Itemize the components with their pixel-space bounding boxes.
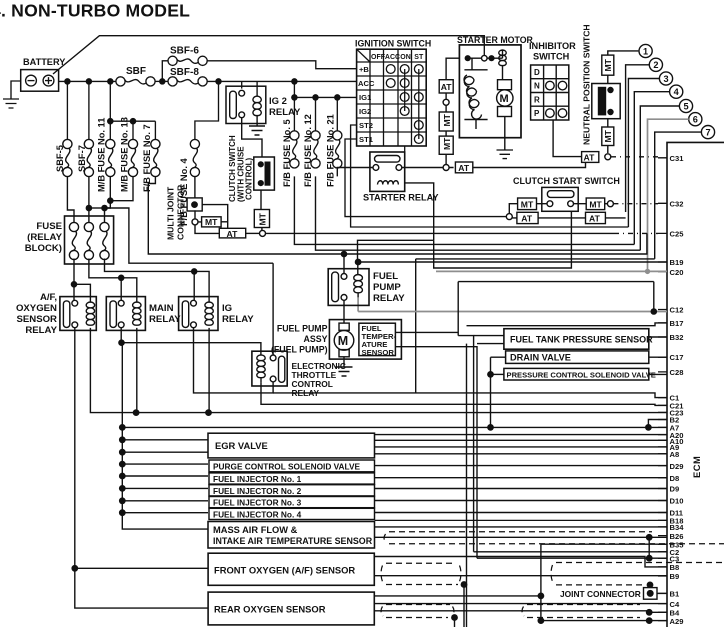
svg-text:OXYGEN: OXYGEN [16, 303, 57, 314]
injector 2 box [209, 485, 375, 496]
svg-text:C20: C20 [670, 268, 684, 277]
label A/F OXYGEN SENSOR RELAY [16, 292, 58, 336]
wire C2 row [474, 551, 667, 553]
svg-text:D10: D10 [670, 497, 684, 506]
connector MT (top) [602, 55, 614, 75]
svg-text:B8: B8 [670, 563, 680, 572]
svg-text:FRONT OXYGEN (A/F) SENSOR: FRONT OXYGEN (A/F) SENSOR [214, 564, 355, 575]
svg-text:MT: MT [442, 137, 452, 150]
svg-text:IG1: IG1 [359, 93, 372, 102]
svg-text:SBF: SBF [126, 66, 146, 77]
wire ETC top contact up to feed row [272, 263, 274, 355]
fuse block box [65, 216, 114, 264]
wire clutch switch out via MT [260, 190, 262, 209]
wire AT out to inhibitor AT [473, 162, 586, 167]
svg-text:C25: C25 [670, 229, 685, 238]
node 7 [701, 126, 714, 139]
svg-text:(RELAY: (RELAY [27, 232, 62, 243]
wire A29 row [541, 620, 667, 622]
svg-text:D9: D9 [670, 485, 680, 494]
wire D29 row [375, 465, 668, 467]
svg-text:OFF: OFF [371, 54, 386, 61]
svg-text:M/B FUSE No. 13: M/B FUSE No. 13 [120, 117, 130, 192]
svg-text:FUEL: FUEL [373, 271, 398, 282]
svg-text:M: M [500, 93, 509, 105]
wire pcsv left [491, 373, 504, 375]
relay MAIN box [106, 297, 145, 331]
wire vertical C1 feed [415, 259, 417, 393]
wire row 258.9 to circle 7 [416, 258, 655, 260]
svg-text:N: N [534, 82, 540, 91]
wire C17 stub [649, 356, 667, 358]
wire B1 row [650, 585, 667, 594]
wire IG2 relay contact feed [241, 81, 243, 88]
connector AT right [586, 212, 606, 223]
svg-text:3: 3 [663, 74, 668, 84]
svg-text:MULTI JOINT: MULTI JOINT [166, 186, 176, 240]
wires fuses into block [67, 176, 110, 222]
svg-text:MAIN: MAIN [149, 303, 174, 314]
wire D10 row [375, 500, 668, 502]
valve drain box [506, 351, 649, 364]
svg-text:AT: AT [458, 163, 470, 173]
wire battery to ground [11, 81, 21, 99]
wire M/B13 to M/B11 node [110, 176, 133, 200]
wire branch up to SBF-6 [162, 61, 168, 82]
wire SBF-5 top [66, 81, 68, 139]
motor M starter [498, 80, 512, 90]
svg-text:1: 1 [643, 46, 648, 56]
wire AT right to circle2 drop [605, 217, 625, 219]
connector MT (clutch switch) [254, 210, 269, 228]
node bus junctions [65, 79, 70, 84]
wire C28 stub [649, 373, 667, 375]
wire column top to starter box [446, 58, 459, 79]
wire D9 row [375, 488, 668, 490]
connector MT (multi joint) [202, 217, 222, 227]
relay ETC box [252, 351, 287, 386]
spring starter [464, 75, 481, 119]
wire B35 row [541, 544, 667, 620]
wire ST1 exit [345, 139, 507, 217]
label FUSE (RELAY BLOCK) [25, 221, 63, 254]
valve pressure control solenoid box [504, 368, 649, 380]
connector MT right [586, 198, 605, 210]
svg-text:F/B FUSE No. 5: F/B FUSE No. 5 [282, 119, 292, 187]
fuse SBF-5 [63, 139, 72, 176]
svg-text:4: 4 [674, 87, 680, 97]
svg-text:MT: MT [589, 199, 602, 209]
svg-text:F/B FUSE No. 21: F/B FUSE No. 21 [326, 114, 336, 187]
valve purge control box [209, 460, 375, 472]
fuse F/B No.7 [151, 139, 160, 176]
wire A7 row [122, 426, 667, 428]
relay fuel pump box [328, 269, 369, 306]
fuse SBF-8 [168, 77, 207, 86]
fuel pump assy box [329, 320, 401, 360]
wire main bus from battery [59, 80, 116, 82]
svg-text:B34: B34 [670, 523, 685, 532]
svg-text:SENSOR: SENSOR [16, 314, 57, 325]
wire F/B12 to circle 5 [316, 176, 641, 250]
node 1 [639, 44, 652, 57]
wire drain valve left [491, 357, 506, 427]
svg-text:AT: AT [584, 152, 596, 162]
inhibitor switch grid [531, 65, 569, 120]
svg-text:CONNECTOR: CONNECTOR [176, 184, 186, 240]
connector AT (starter) [455, 162, 472, 173]
sensor mass air flow box [208, 522, 375, 549]
svg-text:RELAY: RELAY [25, 325, 57, 336]
svg-text:ST1: ST1 [359, 135, 374, 144]
wire B19 row [358, 261, 667, 263]
ignition switch grid [357, 49, 427, 146]
svg-text:SBF-6: SBF-6 [170, 46, 199, 57]
svg-text:B32: B32 [670, 333, 684, 342]
svg-text:CONTROL): CONTROL) [245, 157, 254, 200]
wire circle1 to MT [608, 51, 639, 55]
svg-text:ACC: ACC [358, 79, 375, 88]
node 6 (gray) [648, 113, 702, 272]
svg-text:RELAY: RELAY [292, 388, 320, 398]
fuse block fuse 3 [100, 222, 109, 259]
svg-text:FUEL INJECTOR No. 1: FUEL INJECTOR No. 1 [213, 474, 302, 484]
svg-text:D: D [534, 68, 540, 77]
wire A/F relay down to oxygen sensors [75, 328, 208, 608]
wire B17 row [467, 323, 668, 326]
wire table ST column [418, 69, 420, 139]
svg-text:AT: AT [227, 229, 239, 239]
shield dashed (front oxygen left) [381, 563, 461, 584]
clutch switch (with cruise control) [254, 157, 275, 190]
wire B26 row [375, 536, 668, 538]
svg-text:C12: C12 [670, 306, 684, 315]
node solenoid top [465, 56, 470, 61]
svg-text:MT: MT [205, 217, 218, 227]
wire box to AT route [202, 205, 228, 229]
svg-text:SWITCH: SWITCH [533, 52, 570, 62]
wire B8 row [374, 557, 667, 567]
wire C4 row [374, 603, 667, 605]
svg-text:M: M [338, 334, 348, 348]
svg-text:BLOCK): BLOCK) [25, 243, 62, 254]
wire B4 row [374, 611, 667, 613]
svg-text:IGNITION SWITCH: IGNITION SWITCH [355, 39, 431, 49]
svg-text:5: 5 [683, 101, 688, 111]
wire F/B4 to box [194, 176, 196, 198]
svg-text:ST2: ST2 [359, 121, 373, 130]
wire IG coil down [208, 328, 210, 413]
svg-text:AT: AT [521, 213, 533, 223]
svg-text:F/B FUSE No. 12: F/B FUSE No. 12 [303, 114, 313, 187]
svg-text:C31: C31 [670, 154, 685, 163]
label ELECTRONIC THROTTLE CONTROL RELAY [292, 361, 346, 398]
wire IG1 row [294, 96, 356, 98]
svg-text:(FUEL PUMP): (FUEL PUMP) [271, 345, 328, 355]
injector 1 box [209, 473, 375, 484]
svg-text:C4: C4 [670, 600, 680, 609]
fuse block fuse 2 [84, 222, 93, 259]
wire D11 row [375, 512, 668, 514]
node 4 [670, 85, 683, 98]
wire B34 row [375, 526, 668, 528]
svg-text:ACC: ACC [385, 54, 400, 61]
svg-text:AT: AT [441, 82, 453, 92]
svg-text:C28: C28 [670, 368, 684, 377]
shield dashed (rear oxygen right) [522, 605, 640, 618]
wire starter relay coil down [405, 183, 434, 240]
wire fuse2 to MAIN relay contact and coil [89, 259, 137, 303]
svg-text:MT: MT [521, 199, 534, 209]
ECM body line [667, 142, 724, 627]
svg-text:ECM: ECM [691, 456, 702, 478]
wire fuse3 to IG relay contact and coil [105, 259, 210, 303]
connector MT left [518, 198, 537, 210]
wire clutch start switch to row 268 [434, 211, 572, 268]
wire fuse1 to A/F relay contact and coil [74, 259, 90, 303]
svg-text:2: 2 [653, 60, 658, 70]
connector multi joint box [187, 198, 202, 211]
relay A/F box [60, 297, 96, 331]
wire C3 row [477, 557, 667, 559]
wire C25 row [266, 232, 615, 234]
svg-text:BATTERY: BATTERY [23, 57, 65, 67]
svg-text:SENSOR: SENSOR [362, 348, 395, 357]
fuse block fuse 1 [69, 222, 78, 259]
wire IG relay to ETC bottom contact [194, 328, 274, 393]
valve EGR box [208, 433, 375, 458]
wire left bus [121, 328, 208, 529]
wire B35 link from rear oxygen [374, 595, 541, 597]
svg-text:INTAKE AIR TEMPERATURE SENSOR: INTAKE AIR TEMPERATURE SENSOR [213, 536, 373, 546]
ground (starter motor) [497, 150, 514, 159]
wire bus stubs to purge/injectors [122, 464, 208, 513]
wire F/B5 to circle 4 [294, 176, 634, 244]
svg-text:C17: C17 [670, 353, 684, 362]
svg-text:FUEL INJECTOR No. 2: FUEL INJECTOR No. 2 [213, 486, 302, 496]
connector AT (neutral) [582, 152, 599, 163]
ground (IG2 relay) [249, 126, 265, 135]
plunger starter [464, 58, 487, 129]
svg-text:+B: +B [359, 65, 369, 74]
svg-text:IG2: IG2 [359, 107, 371, 116]
svg-text:STARTER RELAY: STARTER RELAY [363, 193, 439, 203]
wire F/B12 feed [315, 97, 317, 130]
wire C1 row [273, 393, 667, 398]
svg-text:SBF-8: SBF-8 [170, 67, 199, 78]
wire F/B21 feed [336, 97, 338, 130]
wire clutch start input [507, 216, 512, 218]
injector 3 box [209, 497, 375, 508]
svg-text:RELAY: RELAY [149, 314, 181, 325]
relay starter box [370, 152, 405, 191]
svg-text:NEUTRAL POSITION SWITCH: NEUTRAL POSITION SWITCH [582, 24, 592, 145]
connector circle multi joint [192, 219, 198, 225]
svg-text:MT: MT [603, 129, 613, 142]
connector AT (multi joint) [219, 228, 245, 238]
svg-text:4. NON-TURBO MODEL: 4. NON-TURBO MODEL [0, 1, 190, 21]
wire row 240.3 (starter relay coil to fuel pump coil) [358, 240, 434, 274]
switch neutral position [592, 84, 620, 119]
fuse F/B No.21 [333, 131, 342, 168]
wire dash to C32 [613, 203, 658, 205]
wire dash to C31 [611, 156, 658, 158]
svg-text:RELAY: RELAY [269, 107, 301, 118]
starter motor box [459, 45, 521, 138]
sensor fuel temperature box [359, 323, 396, 355]
fuse F/B No.5 [290, 131, 299, 168]
fuse SBF-6 [168, 56, 207, 65]
wire B32 stub [649, 336, 667, 338]
battery B1 [21, 70, 59, 92]
svg-text:C32: C32 [670, 199, 684, 208]
svg-text:RELAY: RELAY [222, 314, 254, 325]
svg-text:FUEL PUMP: FUEL PUMP [277, 324, 328, 334]
wire table ON column [404, 69, 406, 111]
wire fuel temp row to C12 [651, 282, 656, 315]
svg-text:B1: B1 [670, 590, 680, 599]
relay IG2 box [226, 86, 266, 123]
wire starter relay contact to AT [402, 167, 454, 169]
wire B26-C3 link [648, 537, 650, 558]
svg-text:6: 6 [693, 115, 698, 125]
svg-text:R: R [534, 95, 540, 104]
wire SBF-8 to ignition switch ACC [207, 80, 356, 82]
svg-text:DRAIN VALVE: DRAIN VALVE [510, 353, 571, 363]
svg-text:MASS AIR FLOW &: MASS AIR FLOW & [213, 525, 298, 535]
svg-text:D8: D8 [670, 474, 680, 483]
svg-text:INHIBITOR: INHIBITOR [529, 41, 576, 51]
wire EGR outputs [375, 435, 668, 454]
relay IG box [179, 297, 218, 331]
svg-text:AT: AT [589, 213, 601, 223]
node 2 [649, 58, 662, 71]
svg-text:MT: MT [442, 113, 452, 126]
svg-text:P: P [534, 109, 540, 118]
svg-text:STARTER MOTOR: STARTER MOTOR [457, 35, 534, 45]
wire MAIN coil down [136, 328, 138, 413]
fuse M/B No.13 [128, 139, 137, 176]
svg-text:RELAY: RELAY [373, 293, 405, 304]
fuse M/B No.11 [106, 139, 115, 176]
svg-text:JOINT CONNECTOR: JOINT CONNECTOR [560, 589, 641, 599]
wire SBF-8 branch to F/B fuse No.4 [195, 81, 219, 139]
svg-text:IG 2: IG 2 [269, 96, 287, 107]
wire diagonal battery feed to starter [53, 36, 484, 74]
svg-text:ON: ON [400, 54, 411, 61]
wire inhibitor to AT [553, 120, 582, 157]
wire bus stubs to EGR [122, 440, 208, 452]
wire C23 row [90, 328, 667, 413]
sensor front oxygen box [208, 553, 374, 585]
label CLUTCH SWITCH [228, 135, 254, 202]
svg-text:FUEL TANK PRESSURE SENSOR: FUEL TANK PRESSURE SENSOR [510, 334, 653, 344]
svg-text:A8: A8 [670, 450, 680, 459]
injector 4 box [209, 508, 375, 519]
ground (battery) [3, 99, 19, 108]
wire fuse block node to ETC relay contact [105, 208, 274, 263]
connector joint box [644, 588, 658, 600]
connector MT [439, 112, 453, 131]
wire C12 row (gray) [358, 297, 667, 311]
svg-text:REAR OXYGEN SENSOR: REAR OXYGEN SENSOR [214, 604, 326, 615]
svg-text:FUEL INJECTOR No. 4: FUEL INJECTOR No. 4 [213, 509, 302, 519]
svg-text:B17: B17 [670, 319, 684, 328]
shield dashed (rear oxygen left) [381, 605, 454, 618]
wire SBF-6 to ignition switch +B [207, 61, 356, 69]
svg-text:EGR VALVE: EGR VALVE [215, 440, 268, 451]
wire IG2 contact out to clutch switch [242, 118, 262, 157]
connector AT left [517, 212, 538, 223]
wire branch to M/B 13 and F/B 7 [110, 121, 155, 139]
wire B2 link [648, 420, 667, 428]
coil IG2 [253, 96, 261, 116]
shield dashed (front oxygen right) [551, 563, 724, 585]
sensor fuel tank pressure box [504, 329, 649, 350]
wire ETC coil to C21 [261, 382, 667, 405]
svg-text:FUSE: FUSE [36, 221, 62, 232]
svg-text:F/B FUSE No. 7: F/B FUSE No. 7 [142, 124, 152, 192]
svg-text:A/F,: A/F, [40, 292, 57, 303]
wire ST2 exit [351, 125, 629, 227]
svg-text:SBF-7: SBF-7 [77, 145, 87, 172]
motor fuel pump [339, 323, 349, 330]
svg-text:PRESSURE CONTROL SOLENOID VALV: PRESSURE CONTROL SOLENOID VALVE [507, 370, 656, 379]
sensor rear oxygen box [208, 592, 374, 625]
node 5 [679, 99, 692, 112]
connector MT (bottom) [602, 127, 614, 146]
wire C20 row (gray) [358, 269, 667, 312]
wire D8 row [375, 477, 668, 479]
fuse F/B No.12 [311, 131, 320, 168]
wire fuel pump ground [343, 357, 345, 367]
wire fp relay contact down to motor [343, 300, 345, 323]
switch clutch start box [542, 187, 578, 211]
svg-text:PUMP: PUMP [373, 282, 401, 293]
svg-text:PURGE CONTROL SOLENOID VALVE: PURGE CONTROL SOLENOID VALVE [213, 461, 361, 471]
pin ticks ECM [658, 158, 667, 621]
shield dashed (mass air flow) [384, 532, 724, 544]
svg-text:IG: IG [222, 303, 232, 314]
connector AT [439, 80, 453, 93]
fuse F/B No.4 [190, 139, 199, 176]
wire M/B 11 top [109, 81, 111, 139]
label FUEL TEMPERATURE SENSOR [362, 324, 397, 357]
wire B18 row [375, 519, 668, 521]
wire F/B21 to starter relay [337, 168, 373, 177]
fuse SBF [116, 77, 155, 86]
svg-text:B19: B19 [670, 258, 684, 267]
wire IG2 coil feed [256, 81, 258, 96]
svg-text:ST: ST [414, 54, 424, 61]
wire SBF out [155, 80, 168, 82]
svg-text:FUEL INJECTOR No. 3: FUEL INJECTOR No. 3 [213, 498, 302, 508]
svg-text:7: 7 [705, 128, 710, 138]
connector MT [439, 136, 453, 154]
wire table to starter relay [404, 146, 406, 152]
wire F/B7 to fuel pump relay contact [148, 176, 647, 273]
wire B9 row [374, 575, 667, 577]
svg-text:MT: MT [603, 58, 613, 71]
fuse SBF-7 [84, 139, 93, 176]
contacts ignition switch [386, 65, 395, 74]
label FUEL PUMP ASSY [271, 324, 328, 355]
svg-text:D29: D29 [670, 462, 684, 471]
wire SBF-8 branch down to F/B fuse No.5 [293, 81, 295, 130]
svg-text:MT: MT [258, 212, 268, 225]
wire SBF-7 top [88, 81, 90, 139]
coil starter solenoid [499, 50, 507, 80]
